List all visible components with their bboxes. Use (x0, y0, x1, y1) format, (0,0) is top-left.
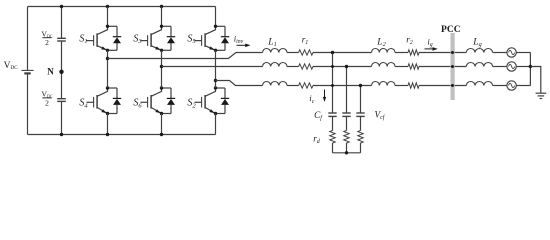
resistor r1 phase C (299, 83, 313, 88)
capacitor Cdc1 (57, 38, 66, 41)
wire: phase A L1-r1 (287, 52, 299, 54)
wire: phase A Lg-source (493, 52, 507, 54)
resistor rd phase B (344, 131, 349, 143)
wire: top DC rail (28, 6, 216, 8)
wire: phase C L1-r1 (287, 85, 299, 87)
inductor L2 phase B (372, 63, 396, 67)
label Lg (472, 38, 481, 49)
label L2 (376, 37, 385, 48)
wire: DC-link branch middle (61, 41, 63, 99)
wire: source A to neutral bus (516, 52, 530, 54)
label L1 (267, 37, 276, 48)
current arrow i_c (323, 90, 326, 103)
AC source phase A (507, 48, 516, 57)
inductor Lg phase C (466, 82, 492, 86)
wire: phase B Lg-source (493, 66, 507, 68)
resistor rd phase A (330, 131, 335, 143)
junction: cap branch on top rail (60, 5, 63, 8)
capacitor Cf phase A (328, 113, 336, 116)
label S4 (79, 98, 88, 110)
current arrow i_inv (237, 44, 251, 48)
wire: shunt branch C upper (360, 86, 362, 114)
label S5 (187, 33, 196, 45)
label i_g (427, 37, 432, 49)
svg-text:PCC: PCC (441, 25, 461, 35)
junction: shunt A-B crossing dot (331, 65, 334, 68)
junction: leg top rail x=107.5 (106, 5, 109, 8)
wire: source B to neutral bus (516, 66, 530, 68)
wire: shunt branch B upper (346, 67, 348, 114)
wire: DC source upper lead (27, 7, 29, 71)
capacitor Cf phase B (342, 113, 350, 116)
junction: leg bottom rail x=107.5 (106, 133, 109, 136)
wire: shunt branch C lower (360, 143, 362, 153)
wire: leg 1 midsection (107, 50, 109, 88)
wire: leg lower link x=215.5 (215, 114, 217, 135)
inductor L1 phase A (263, 49, 287, 53)
wire: DC source lower lead (27, 73, 29, 134)
wire: shunt branch A middle (332, 116, 334, 130)
resistor rd phase C (358, 131, 363, 143)
inductor L1 phase C (263, 82, 287, 86)
wire: phase C r2-Lg (419, 85, 466, 87)
inductor L1 phase B (263, 63, 287, 67)
wire: phase A r1-L2 (313, 52, 372, 54)
junction: leg bottom rail x=161.5 (160, 133, 163, 136)
label V_DC (4, 61, 19, 71)
wire: leg upper link x=215.5 (215, 7, 217, 27)
wire: phase C L2-r2 (395, 85, 408, 87)
wire: shunt common bar (333, 152, 361, 154)
junction: shunt A-C crossing dot (331, 84, 334, 87)
junction: PCC phase B (451, 65, 454, 68)
label Vdc/2 upper (41, 30, 53, 48)
junction: shunt B tap (345, 65, 348, 68)
label S3 (133, 33, 142, 45)
transistor S1 (IGBT with freewheel diode) (87, 25, 122, 52)
junction: shunt C tap (359, 84, 362, 87)
AC source phase B (507, 62, 516, 71)
wire: bottom DC rail (28, 134, 216, 136)
transistor S4 (IGBT with freewheel diode) (87, 86, 122, 115)
label Cf (314, 110, 323, 122)
transistor S6 (IGBT with freewheel diode) (141, 86, 176, 115)
junction: shunt A tap (331, 51, 334, 54)
resistor r1 phase B (299, 64, 313, 69)
svg-text:2: 2 (45, 38, 49, 47)
inductor Lg phase A (466, 49, 492, 53)
label r1 (302, 34, 309, 46)
wire: leg upper link x=107.5 (107, 7, 109, 27)
transistor S2 (IGBT with freewheel diode) (195, 86, 230, 115)
wire: phase A tap (106, 53, 263, 61)
label S2 (187, 98, 196, 110)
AC source phase C (507, 81, 516, 90)
wire: phase B tap (160, 65, 263, 68)
wire: phase A L2-r2 (395, 52, 408, 54)
current arrow i_g (425, 47, 438, 51)
wire: phase B r1-L2 (313, 66, 372, 68)
corner: leg 3 top rail (0, 0, 1, 1)
label i_c (309, 93, 314, 105)
wire: phase A r2-Lg (419, 52, 466, 54)
junction: cap branch on bottom rail (60, 133, 63, 136)
wire: leg lower link x=107.5 (107, 114, 109, 135)
wire: shunt branch B lower (346, 143, 348, 153)
battery VDC (21, 70, 33, 73)
resistor r2 phase C (408, 83, 419, 88)
wire: phase C tap (214, 79, 263, 86)
wire: phase C r1-L2 (313, 85, 372, 87)
label Vcf (375, 110, 386, 122)
wire: phase B L1-r1 (287, 66, 299, 68)
wire: shunt branch A upper (332, 53, 334, 114)
wire: leg lower link x=161.5 (161, 114, 163, 135)
wire: DC-link branch lower (61, 101, 63, 134)
junction: leg top rail x=161.5 (160, 5, 163, 8)
wire: leg 3 midsection (215, 50, 217, 88)
label rd (313, 134, 321, 146)
inductor L2 phase A (372, 48, 396, 52)
label S6 (133, 98, 142, 110)
resistor r1 phase A (299, 50, 313, 55)
PCC bus bar (451, 33, 455, 100)
svg-text:N: N (47, 67, 54, 77)
transistor S3 (IGBT with freewheel diode) (141, 25, 176, 52)
label i_inv (234, 33, 244, 45)
wire: source C to neutral bus (516, 85, 530, 87)
label PCC (441, 25, 461, 35)
wire: phase C Lg-source (493, 85, 507, 87)
capacitor Cf phase C (356, 113, 364, 116)
resistor r2 phase B (408, 64, 419, 69)
svg-text:2: 2 (45, 98, 49, 107)
wire: phase B r2-Lg (419, 66, 466, 68)
wire: shunt branch A lower (332, 143, 334, 153)
transistor S5 (IGBT with freewheel diode) (195, 25, 230, 52)
junction: neutral bus (529, 65, 532, 68)
wire: shunt branch C middle (360, 116, 362, 130)
junction: shunt bar middle (345, 151, 348, 154)
inductor L2 phase C (372, 82, 396, 86)
wire: ground branch (530, 67, 540, 94)
capacitor Cdc2 (57, 99, 66, 102)
wire: neutral bus (529, 53, 531, 86)
junction: PCC phase C (451, 84, 454, 87)
wire: shunt branch B middle (346, 116, 348, 130)
wire: phase B L2-r2 (395, 66, 408, 68)
wire: leg upper link x=161.5 (161, 7, 163, 27)
inductor Lg phase B (466, 63, 492, 67)
ground (536, 93, 547, 98)
wire: leg 2 midsection (161, 50, 163, 88)
node N (59, 70, 63, 74)
resistor r2 phase A (408, 50, 419, 55)
label N (47, 67, 54, 77)
label S1 (79, 33, 87, 45)
label Vdc/2 lower (41, 90, 53, 108)
label r2 (406, 34, 413, 46)
junction: PCC phase A (451, 51, 454, 54)
wire: DC-link branch upper (61, 7, 63, 39)
